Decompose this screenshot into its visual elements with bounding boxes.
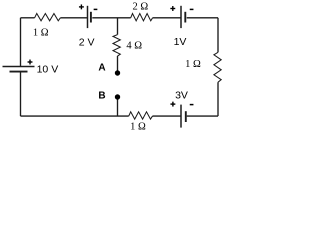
svg-text:10 V: 10 V [37,64,59,76]
battery 2 V plates [88,6,91,28]
svg-text:1 Ω: 1 Ω [185,59,201,70]
plus sign 1 V battery [170,6,175,11]
svg-text:2 V: 2 V [79,36,95,48]
node A dot [115,70,120,75]
battery 10 V plates [3,67,35,72]
wire from 3 V battery to bottom 1 Ohm resistor [153,115,181,117]
svg-text:A: A [98,63,105,74]
plus sign 10 V battery [28,60,33,65]
resistor 1 Ohm top-left zigzag [35,14,61,21]
wire top-left horizontal segment [21,17,35,19]
wire left side upper segment [20,18,22,67]
resistor 1 Ohm bottom zigzag [129,112,153,119]
wire from 1 V battery to top-right corner [187,17,218,19]
wire bottom-left long segment [21,115,129,117]
plus sign 2 V battery [79,4,84,9]
minus sign 2 V battery [94,9,98,11]
wire right side lower segment [217,82,219,116]
wire from 2 V battery to node junction and 2 Ohm resistor [92,17,130,19]
wire node B to bottom wire [117,97,119,116]
wire bottom-right segment [187,115,218,117]
node B dot [115,94,120,99]
battery 3 V plates [181,105,186,128]
battery 1 V plates [181,6,185,28]
resistor 1 Ohm right zigzag [214,52,221,82]
svg-text:1V: 1V [174,36,187,48]
svg-text:1 Ω: 1 Ω [130,122,146,133]
wire between 1 Ohm resistor and 2 V battery [60,17,87,19]
wire left side lower segment [20,72,22,117]
svg-text:4 Ω: 4 Ω [126,40,142,51]
minus sign 3 V battery [190,104,194,106]
wire middle branch to node A [117,56,119,73]
wire right side upper segment [217,18,219,53]
plus sign 3 V battery [170,102,175,107]
svg-text:B: B [98,91,105,102]
svg-text:1 Ω: 1 Ω [33,28,49,39]
svg-text:2 Ω: 2 Ω [132,1,148,12]
wire middle branch upper segment [117,18,119,35]
minus sign 1 V battery [190,9,194,11]
svg-text:3V: 3V [175,89,188,101]
resistor 4 Ohm zigzag [113,35,120,56]
resistor 2 Ohm zigzag [131,14,153,21]
wire from 2 Ohm resistor to 1 V battery [153,17,181,19]
